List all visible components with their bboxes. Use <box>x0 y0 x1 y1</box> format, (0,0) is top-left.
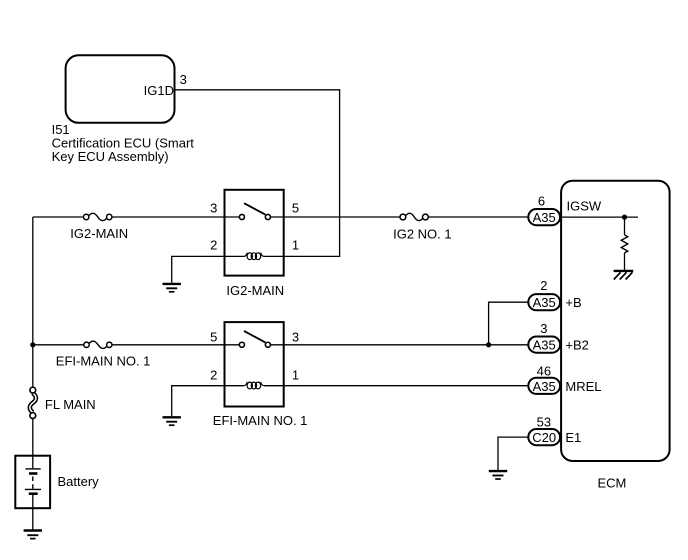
svg-text:Key ECU Assembly): Key ECU Assembly) <box>52 149 169 164</box>
wire EFI-MAIN NO.1 row left of fuse <box>33 344 84 346</box>
fuse IG2 NO. 1 <box>400 213 428 220</box>
wire relay EFI-MAIN pin 3 to +B2 <box>284 344 529 346</box>
svg-text:EFI-MAIN NO. 1: EFI-MAIN NO. 1 <box>213 413 308 428</box>
relay IG2-MAIN coil <box>225 253 284 260</box>
wire battery feed vertical (upper) <box>32 217 34 387</box>
relay EFI-MAIN coil <box>225 382 284 389</box>
svg-text:2: 2 <box>540 278 547 293</box>
svg-text:ECM: ECM <box>598 476 627 491</box>
label I51 Certification ECU (Smart Key ECU Assembly) <box>52 122 195 164</box>
wire +B branch <box>489 302 529 345</box>
fuse IG2-MAIN <box>84 213 112 220</box>
connector pin A35-2 +B <box>528 294 560 310</box>
ground (relay EFI-MAIN coil) <box>163 417 181 425</box>
svg-text:46: 46 <box>537 364 551 379</box>
node junction at resistor <box>622 215 627 220</box>
ECM box <box>561 181 670 461</box>
svg-text:5: 5 <box>210 330 217 345</box>
connector pin A35-46 MREL <box>528 378 560 394</box>
wire IGSW internal <box>560 216 638 218</box>
svg-text:A35: A35 <box>533 379 556 394</box>
relay EFI-MAIN NO.1 box <box>225 322 284 406</box>
wire relay EFI-MAIN pin 2 to ground <box>172 386 225 417</box>
svg-text:A35: A35 <box>533 338 556 353</box>
battery box <box>15 456 50 509</box>
svg-text:IG2 NO. 1: IG2 NO. 1 <box>393 226 452 241</box>
svg-text:6: 6 <box>538 193 545 208</box>
wire relay EFI-MAIN pin 1 to MREL <box>284 385 529 387</box>
svg-text:IG2-MAIN: IG2-MAIN <box>226 283 284 298</box>
svg-text:1: 1 <box>292 367 299 382</box>
svg-text:C20: C20 <box>532 430 556 445</box>
relay IG2-MAIN box <box>225 190 284 276</box>
svg-text:Battery: Battery <box>58 474 100 489</box>
connector I51 box <box>66 55 175 123</box>
ground (battery) <box>24 531 42 539</box>
ground (E1) <box>489 471 507 479</box>
node junction +B/+B2 <box>486 342 491 347</box>
svg-text:IG2-MAIN: IG2-MAIN <box>70 226 128 241</box>
svg-text:53: 53 <box>537 415 551 430</box>
svg-text:A35: A35 <box>533 295 556 310</box>
svg-text:IG1D: IG1D <box>144 83 174 98</box>
svg-text:3: 3 <box>210 200 217 215</box>
wire IG2-MAIN fuse to relay pin 3 <box>112 216 225 218</box>
svg-text:FL MAIN: FL MAIN <box>45 397 96 412</box>
ground (relay IG2-MAIN coil) <box>163 284 181 292</box>
wire battery feed vertical (lower) <box>32 419 34 456</box>
wire EFI-MAIN NO.1 fuse to relay pin 5 <box>112 344 225 346</box>
svg-text:3: 3 <box>180 72 187 87</box>
svg-text:+B: +B <box>565 295 581 310</box>
svg-text:5: 5 <box>292 200 299 215</box>
wire IG2 NO.1 fuse to ECM pin IGSW <box>428 216 528 218</box>
svg-text:+B2: +B2 <box>565 338 589 353</box>
svg-text:MREL: MREL <box>565 379 601 394</box>
svg-text:A35: A35 <box>533 210 556 225</box>
svg-text:1: 1 <box>292 238 299 253</box>
wire E1 to ground <box>498 437 528 471</box>
connector pin C20-53 E1 <box>528 429 560 445</box>
svg-text:EFI-MAIN NO. 1: EFI-MAIN NO. 1 <box>56 354 151 369</box>
fuse EFI-MAIN NO. 1 <box>84 341 112 348</box>
node junction at EFI-MAIN NO.1 branch <box>30 342 35 347</box>
svg-text:2: 2 <box>210 367 217 382</box>
relay IG2-MAIN switch contact <box>225 203 284 219</box>
wire relay IG2-MAIN pin 5 to IG2 NO.1 fuse <box>284 216 400 218</box>
connector pin A35-6 IGSW <box>528 209 560 225</box>
svg-text:IGSW: IGSW <box>567 198 602 213</box>
wire IG2-MAIN row left of fuse <box>33 216 84 218</box>
svg-text:2: 2 <box>210 238 217 253</box>
battery cells <box>25 456 41 530</box>
wire IG1D pin3 to relay coil pin 1 <box>175 90 340 257</box>
svg-text:3: 3 <box>540 321 547 336</box>
svg-text:E1: E1 <box>565 430 581 445</box>
relay EFI-MAIN switch contact <box>225 331 284 347</box>
svg-text:3: 3 <box>292 330 299 345</box>
resistor (ECM internal pull-down) <box>621 217 627 270</box>
connector pin A35-3 +B2 <box>528 337 560 353</box>
chassis ground (ECM internal) <box>614 271 634 280</box>
wire relay IG2-MAIN pin 2 to ground <box>172 256 225 282</box>
fusible link FL MAIN <box>30 387 36 418</box>
